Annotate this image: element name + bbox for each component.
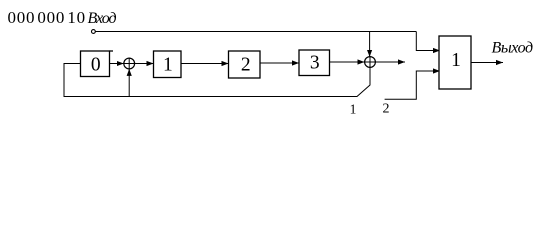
svg-text:2: 2 [383,102,390,117]
wire: XOR U2 output (switch throw 1) [375,61,405,63]
XOR gate U1 [124,58,135,69]
svg-text:1: 1 [451,50,461,71]
wire: register 3 to XOR U2 [330,61,365,63]
register cell 3 [299,50,330,76]
svg-text:000 000 10: 000 000 10 [8,8,86,27]
register cell 0 [81,51,110,77]
wire: register 1 to register 2 [181,63,229,65]
node: input terminal circle [92,30,96,34]
wire: switch throw 2 to selector input 2 [385,71,440,99]
register cell 2 [229,51,261,78]
selector box U3 [439,36,471,89]
svg-text:Вход: Вход [88,10,117,27]
wire: top input line [95,31,416,33]
register cell 1 [154,51,182,78]
wire: branch down into XOR U2 top [369,32,371,57]
wire: XOR U1 to register 1 [135,63,154,65]
svg-text:Выход: Выход [492,40,534,57]
wire: register 0 to XOR U1 [110,63,124,65]
svg-text:1: 1 [163,55,173,76]
wire: feedback up into XOR U1 bottom [128,69,130,97]
wire: register 2 to register 3 [260,62,299,64]
wire: feedback into register 0 [64,64,370,97]
XOR gate U2 [365,57,376,68]
svg-text:0: 0 [91,55,101,76]
wire: output arrow [471,62,503,64]
wire: to selector input 1 [416,32,440,51]
svg-text:3: 3 [310,53,320,74]
svg-text:2: 2 [241,55,251,76]
svg-text:1: 1 [350,102,357,117]
